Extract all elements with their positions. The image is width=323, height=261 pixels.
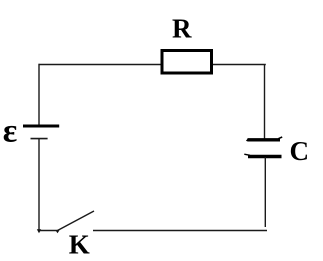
switch K blade [58,211,95,231]
wire left vertical lower segment [38,139,40,231]
wire top-right horizontal segment [213,64,266,66]
capacitor top plate [248,138,281,141]
svg-text:K: K [69,229,90,259]
battery short plate [31,138,48,140]
resistor R [162,51,212,74]
svg-text:R: R [172,14,192,44]
battery long plate [23,125,59,128]
wire bottom horizontal segment [93,230,267,232]
wire bottom stub to switch pivot [39,230,58,232]
switch pivot contact tick [56,230,60,233]
wire top-left horizontal segment [39,64,163,66]
wire right vertical lower segment [264,157,266,227]
wire right vertical upper segment [264,65,266,140]
wire left vertical upper segment [38,64,40,126]
svg-text:C: C [290,136,310,166]
svg-text:ε: ε [3,113,18,150]
arrow tip at bottom-left corner [37,229,41,233]
capacitor bottom plate [248,155,282,158]
